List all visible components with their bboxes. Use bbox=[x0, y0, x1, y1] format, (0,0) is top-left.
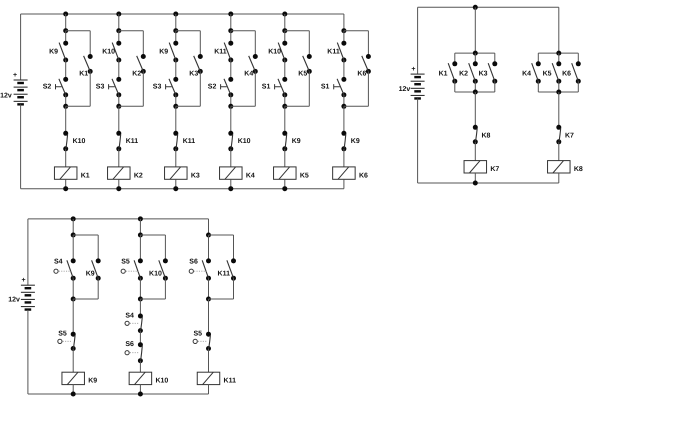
wire bbox=[230, 106, 232, 133]
node: block bottom junction bbox=[556, 90, 561, 95]
wire bbox=[284, 95, 286, 106]
relay contact K5 (NO) bbox=[552, 61, 561, 83]
battery B1 12v bbox=[14, 80, 28, 106]
wire bbox=[139, 299, 141, 316]
wire: battery positive lead bbox=[20, 14, 22, 80]
wire: branch 1 drop bbox=[72, 219, 74, 235]
node: branch 4 split junction bbox=[228, 28, 233, 33]
wire bbox=[343, 60, 345, 79]
wire bbox=[118, 60, 120, 79]
node: bottom rail junction branch 4 bbox=[228, 186, 233, 191]
svg-text:+: + bbox=[21, 277, 25, 284]
node: branch 1 split junction bbox=[71, 233, 76, 238]
switch S6 (NO pushbutton) bbox=[202, 258, 211, 280]
wire bbox=[343, 95, 345, 106]
wire: top rail bbox=[418, 6, 559, 8]
wire bbox=[139, 331, 141, 345]
node: bottom rail junction branch 1 bbox=[71, 392, 76, 397]
wire bbox=[65, 31, 67, 44]
svg-text:K6: K6 bbox=[357, 71, 366, 78]
svg-text:K2: K2 bbox=[459, 70, 468, 77]
wire bbox=[175, 31, 177, 44]
wire bbox=[65, 149, 67, 167]
relay coil K11 bbox=[197, 372, 236, 385]
relay coil K2 bbox=[108, 167, 143, 180]
wire bbox=[208, 278, 210, 299]
wire: parallel path return bbox=[254, 71, 256, 106]
relay contact K10 (NC) bbox=[63, 131, 68, 152]
svg-text:K10: K10 bbox=[155, 378, 168, 385]
switch S2 bbox=[224, 77, 233, 98]
relay coil K6 bbox=[333, 167, 368, 180]
svg-text:K1: K1 bbox=[81, 172, 90, 179]
svg-text:K1: K1 bbox=[79, 71, 88, 78]
wire: battery positive lead bbox=[27, 219, 29, 285]
svg-text:12v: 12v bbox=[0, 92, 12, 99]
wire bbox=[65, 179, 67, 188]
relay coil K9 bbox=[62, 372, 97, 385]
wire bbox=[284, 31, 286, 44]
wire bbox=[208, 235, 210, 261]
wire bbox=[343, 149, 345, 167]
wire bbox=[558, 81, 560, 92]
node: branch 3 split junction bbox=[173, 28, 178, 33]
svg-text:K11: K11 bbox=[218, 270, 231, 277]
svg-text:K1: K1 bbox=[439, 70, 448, 77]
wire: branch drop bbox=[474, 7, 476, 53]
wire bbox=[343, 31, 345, 44]
node: branch 3 split junction bbox=[206, 233, 211, 238]
wire bbox=[577, 53, 579, 64]
node: branch 5 rejoin junction bbox=[282, 104, 287, 109]
svg-text:K9: K9 bbox=[159, 49, 168, 56]
relay contact K11 (NC) bbox=[173, 131, 178, 152]
node: branch 1 rejoin junction bbox=[63, 104, 68, 109]
switch S4 (NC pushbutton) bbox=[138, 314, 143, 334]
node: top rail junction branch 3 bbox=[173, 12, 178, 17]
relay coil K5 bbox=[274, 167, 309, 180]
relay contact K9 (NC) bbox=[341, 131, 346, 152]
node: branch 4 rejoin junction bbox=[228, 104, 233, 109]
wire bbox=[208, 349, 210, 373]
wire bbox=[558, 173, 560, 183]
wire bbox=[139, 385, 141, 394]
node: bottom rail junction branch 5 bbox=[282, 186, 287, 191]
node: branch 3 rejoin junction bbox=[173, 104, 178, 109]
wire bbox=[454, 81, 456, 92]
wire: top supply rail bbox=[21, 13, 344, 15]
wire: parallel path of branch 1 bbox=[66, 30, 91, 32]
svg-text:12v: 12v bbox=[8, 296, 20, 303]
wire bbox=[72, 235, 74, 261]
node: block top junction bbox=[473, 51, 478, 56]
wire bbox=[343, 106, 345, 133]
relay contact K11 (NC) bbox=[116, 131, 121, 152]
wire: parallel path return bbox=[199, 71, 201, 106]
wire bbox=[474, 142, 476, 161]
wire: branch 3 drop bbox=[175, 14, 177, 31]
wire: branch 5 drop bbox=[284, 14, 286, 31]
wire: parallel path return bbox=[367, 71, 369, 106]
svg-text:S2: S2 bbox=[43, 84, 52, 91]
wire: parallel path of branch 3 bbox=[209, 234, 234, 236]
relay contact K3 (NO) bbox=[194, 54, 203, 74]
wire bbox=[494, 81, 496, 92]
svg-text:S1: S1 bbox=[262, 84, 271, 91]
relay contact K7 (NC) bbox=[556, 125, 561, 145]
svg-text:K10: K10 bbox=[102, 49, 115, 56]
wire: branch 6 drop bbox=[343, 14, 345, 31]
svg-text:K2: K2 bbox=[132, 71, 141, 78]
wire: parallel block bottom bar bbox=[455, 91, 495, 93]
svg-text:S5: S5 bbox=[194, 331, 203, 338]
svg-text:K6: K6 bbox=[359, 172, 368, 179]
wire bbox=[175, 106, 177, 133]
wire: parallel path of branch 6 bbox=[344, 30, 369, 32]
relay coil K3 bbox=[165, 167, 200, 180]
wire bbox=[65, 106, 67, 133]
relay contact K11 (NO) bbox=[337, 41, 346, 63]
battery B2 12v bbox=[411, 74, 425, 100]
relay contact K11 (NO) bbox=[224, 41, 233, 63]
node: branch 2 split junction bbox=[138, 233, 143, 238]
wire bbox=[284, 60, 286, 79]
svg-text:K4: K4 bbox=[244, 71, 253, 78]
wire bbox=[230, 60, 232, 79]
wire: branch 2 drop bbox=[139, 219, 141, 235]
wire: bottom return rail bbox=[21, 188, 344, 190]
node: branch 2 split junction bbox=[116, 28, 121, 33]
svg-text:K9: K9 bbox=[88, 378, 97, 385]
wire: parallel path return bbox=[97, 278, 99, 299]
node: branch 1 rejoin junction bbox=[71, 297, 76, 302]
switch S3 bbox=[112, 77, 121, 98]
wire bbox=[537, 53, 539, 64]
wire: parallel path of branch 3 bbox=[176, 30, 201, 32]
relay coil K8 bbox=[548, 161, 583, 174]
wire: top rail bbox=[28, 218, 209, 220]
relay contact K9 (NO) bbox=[169, 41, 178, 63]
svg-text:K3: K3 bbox=[189, 71, 198, 78]
svg-text:K7: K7 bbox=[490, 166, 499, 173]
relay contact K1 (NO) bbox=[448, 61, 457, 83]
relay contact K10 (NC) bbox=[228, 131, 233, 152]
relay contact K3 (NO) bbox=[488, 61, 497, 83]
wire: battery negative lead bbox=[27, 310, 29, 394]
wire: parallel path of branch 5 bbox=[285, 30, 310, 32]
relay contact K10 (NO) bbox=[112, 41, 121, 63]
svg-text:K6: K6 bbox=[562, 70, 571, 77]
wire bbox=[558, 142, 560, 161]
node: bottom rail junction branch 1 bbox=[63, 186, 68, 191]
node: branch 1 split junction bbox=[63, 28, 68, 33]
svg-text:K2: K2 bbox=[134, 172, 143, 179]
svg-text:12v: 12v bbox=[399, 86, 411, 93]
wire: branch drop bbox=[558, 7, 560, 53]
switch S3 bbox=[169, 77, 178, 98]
node: top rail junction branch 2 bbox=[138, 216, 143, 221]
svg-text:K10: K10 bbox=[268, 49, 281, 56]
relay contact K9 (NC) bbox=[282, 131, 287, 152]
node: branch 2 rejoin junction bbox=[116, 104, 121, 109]
wire bbox=[118, 179, 120, 188]
wire bbox=[65, 60, 67, 79]
wire bbox=[118, 149, 120, 167]
node: top rail junction branch 1 bbox=[63, 12, 68, 17]
wire bbox=[284, 149, 286, 167]
wire bbox=[139, 361, 141, 373]
svg-text:S1: S1 bbox=[321, 84, 330, 91]
svg-text:K3: K3 bbox=[479, 70, 488, 77]
wire bbox=[230, 95, 232, 106]
wire bbox=[230, 179, 232, 188]
wire bbox=[494, 53, 496, 64]
switch S5 (NC pushbutton) bbox=[71, 332, 76, 351]
wire bbox=[175, 149, 177, 167]
battery B3 12v bbox=[21, 285, 35, 311]
wire bbox=[175, 60, 177, 79]
svg-text:K11: K11 bbox=[183, 138, 196, 145]
wire: battery negative lead bbox=[20, 104, 22, 188]
svg-text:K3: K3 bbox=[191, 172, 200, 179]
wire bbox=[454, 53, 456, 64]
relay contact K6 (NO) bbox=[362, 54, 371, 74]
wire bbox=[72, 349, 74, 373]
svg-text:S3: S3 bbox=[96, 84, 105, 91]
wire: parallel path of branch 1 bbox=[73, 234, 98, 236]
wire: battery positive lead bbox=[417, 7, 419, 74]
relay coil K10 bbox=[129, 372, 168, 385]
node: branch 5 split junction bbox=[282, 28, 287, 33]
wire: parallel path of branch 2 bbox=[119, 30, 144, 32]
svg-text:S4: S4 bbox=[54, 259, 63, 266]
wire: parallel block top bar bbox=[455, 52, 495, 54]
svg-text:K9: K9 bbox=[351, 138, 360, 145]
wire: parallel path return bbox=[233, 278, 235, 299]
svg-text:S6: S6 bbox=[189, 259, 198, 266]
relay contact K8 (NC) bbox=[473, 125, 478, 145]
svg-text:+: + bbox=[411, 66, 415, 73]
wire: parallel path of branch 4 bbox=[231, 30, 256, 32]
wire bbox=[175, 95, 177, 106]
wire bbox=[118, 95, 120, 106]
wire: bottom rail bbox=[28, 393, 209, 395]
svg-text:K5: K5 bbox=[543, 70, 552, 77]
wire bbox=[558, 92, 560, 127]
svg-text:K10: K10 bbox=[73, 138, 86, 145]
wire: parallel path of branch 2 bbox=[140, 234, 165, 236]
relay contact K10 (NO) bbox=[278, 41, 287, 63]
wire bbox=[230, 149, 232, 167]
node: top rail junction branch 5 bbox=[282, 12, 287, 17]
switch S5 (NO pushbutton) bbox=[134, 258, 143, 280]
relay contact K9 (NO) bbox=[92, 258, 101, 280]
svg-text:K7: K7 bbox=[565, 132, 574, 139]
wire: parallel block bottom bar bbox=[538, 91, 578, 93]
wire bbox=[284, 106, 286, 133]
svg-text:S2: S2 bbox=[208, 84, 217, 91]
svg-text:K11: K11 bbox=[214, 49, 227, 56]
switch S4 (NO pushbutton) bbox=[67, 258, 76, 280]
node: block bottom junction bbox=[473, 90, 478, 95]
relay contact K5 (NO) bbox=[303, 54, 312, 74]
relay coil K4 bbox=[220, 167, 255, 180]
relay contact K6 (NO) bbox=[572, 61, 581, 83]
relay contact K10 (NO) bbox=[159, 258, 168, 280]
wire: branch 2 drop bbox=[118, 14, 120, 31]
relay contact K2 (NO) bbox=[469, 61, 478, 83]
svg-text:K9: K9 bbox=[49, 49, 58, 56]
svg-text:S5: S5 bbox=[121, 259, 130, 266]
svg-text:K11: K11 bbox=[126, 138, 139, 145]
wire: parallel path return bbox=[89, 71, 91, 106]
svg-text:K9: K9 bbox=[292, 138, 301, 145]
node: block top junction bbox=[556, 51, 561, 56]
svg-text:K4: K4 bbox=[522, 70, 531, 77]
relay contact K4 (NO) bbox=[532, 61, 541, 83]
node: bottom rail junction bbox=[473, 181, 478, 186]
wire bbox=[474, 173, 476, 183]
wire: battery negative lead bbox=[417, 99, 419, 184]
wire bbox=[118, 31, 120, 44]
switch S5 (NC pushbutton) bbox=[206, 332, 211, 351]
wire: parallel block top bar bbox=[538, 52, 578, 54]
wire bbox=[72, 278, 74, 299]
svg-text:K9: K9 bbox=[86, 270, 95, 277]
svg-text:K4: K4 bbox=[246, 172, 255, 179]
node: top rail junction branch 2 bbox=[116, 12, 121, 17]
node: bottom rail junction branch 3 bbox=[173, 186, 178, 191]
wire bbox=[230, 31, 232, 44]
node: branch 2 rejoin junction bbox=[138, 297, 143, 302]
relay contact K11 (NO) bbox=[227, 258, 236, 280]
node: top rail junction branch 4 bbox=[228, 12, 233, 17]
svg-text:K5: K5 bbox=[298, 71, 307, 78]
switch S2 bbox=[59, 77, 68, 98]
relay contact K1 (NO) bbox=[84, 54, 93, 74]
wire: parallel path return bbox=[142, 71, 144, 106]
relay coil K1 bbox=[54, 167, 89, 180]
svg-text:K5: K5 bbox=[300, 172, 309, 179]
node: bottom rail junction branch 2 bbox=[116, 186, 121, 191]
wire: branch 4 drop bbox=[230, 14, 232, 31]
relay coil K7 bbox=[464, 161, 499, 174]
wire: branch 1 drop bbox=[65, 14, 67, 31]
relay contact K9 (NO) bbox=[59, 41, 68, 63]
svg-text:K11: K11 bbox=[327, 49, 340, 56]
svg-text:K10: K10 bbox=[238, 138, 251, 145]
node: branch 6 split junction bbox=[341, 28, 346, 33]
switch S1 bbox=[278, 77, 287, 98]
svg-text:K11: K11 bbox=[224, 378, 237, 385]
svg-text:S5: S5 bbox=[58, 331, 67, 338]
wire bbox=[474, 92, 476, 127]
switch S6 (NC pushbutton) bbox=[138, 342, 143, 363]
node: bottom rail junction branch 2 bbox=[138, 392, 143, 397]
wire bbox=[72, 299, 74, 334]
wire bbox=[474, 53, 476, 64]
wire: parallel path return bbox=[308, 71, 310, 106]
wire bbox=[208, 385, 210, 394]
node: branch 6 rejoin junction bbox=[341, 104, 346, 109]
svg-text:S3: S3 bbox=[153, 84, 162, 91]
svg-text:K10: K10 bbox=[149, 270, 162, 277]
wire bbox=[558, 53, 560, 64]
node: top rail junction bbox=[473, 5, 478, 10]
svg-text:K8: K8 bbox=[574, 166, 583, 173]
wire: parallel path return bbox=[164, 278, 166, 299]
wire bbox=[208, 299, 210, 334]
wire bbox=[284, 179, 286, 188]
wire bbox=[139, 278, 141, 299]
node: top rail junction branch 1 bbox=[71, 216, 76, 221]
svg-text:+: + bbox=[13, 72, 17, 79]
relay contact K4 (NO) bbox=[249, 54, 258, 74]
svg-text:K8: K8 bbox=[482, 132, 491, 139]
wire bbox=[343, 179, 345, 188]
node: branch 3 rejoin junction bbox=[206, 297, 211, 302]
wire bbox=[577, 81, 579, 92]
wire: branch 3 drop bbox=[208, 219, 210, 235]
wire: bottom rail bbox=[418, 182, 559, 184]
svg-text:S4: S4 bbox=[125, 312, 134, 319]
relay contact K2 (NO) bbox=[137, 54, 146, 74]
wire bbox=[65, 95, 67, 106]
wire bbox=[474, 81, 476, 92]
svg-text:S6: S6 bbox=[125, 341, 134, 348]
wire bbox=[175, 179, 177, 188]
wire bbox=[139, 235, 141, 261]
wire bbox=[72, 385, 74, 394]
switch S1 bbox=[337, 77, 346, 98]
wire bbox=[118, 106, 120, 133]
wire bbox=[537, 81, 539, 92]
